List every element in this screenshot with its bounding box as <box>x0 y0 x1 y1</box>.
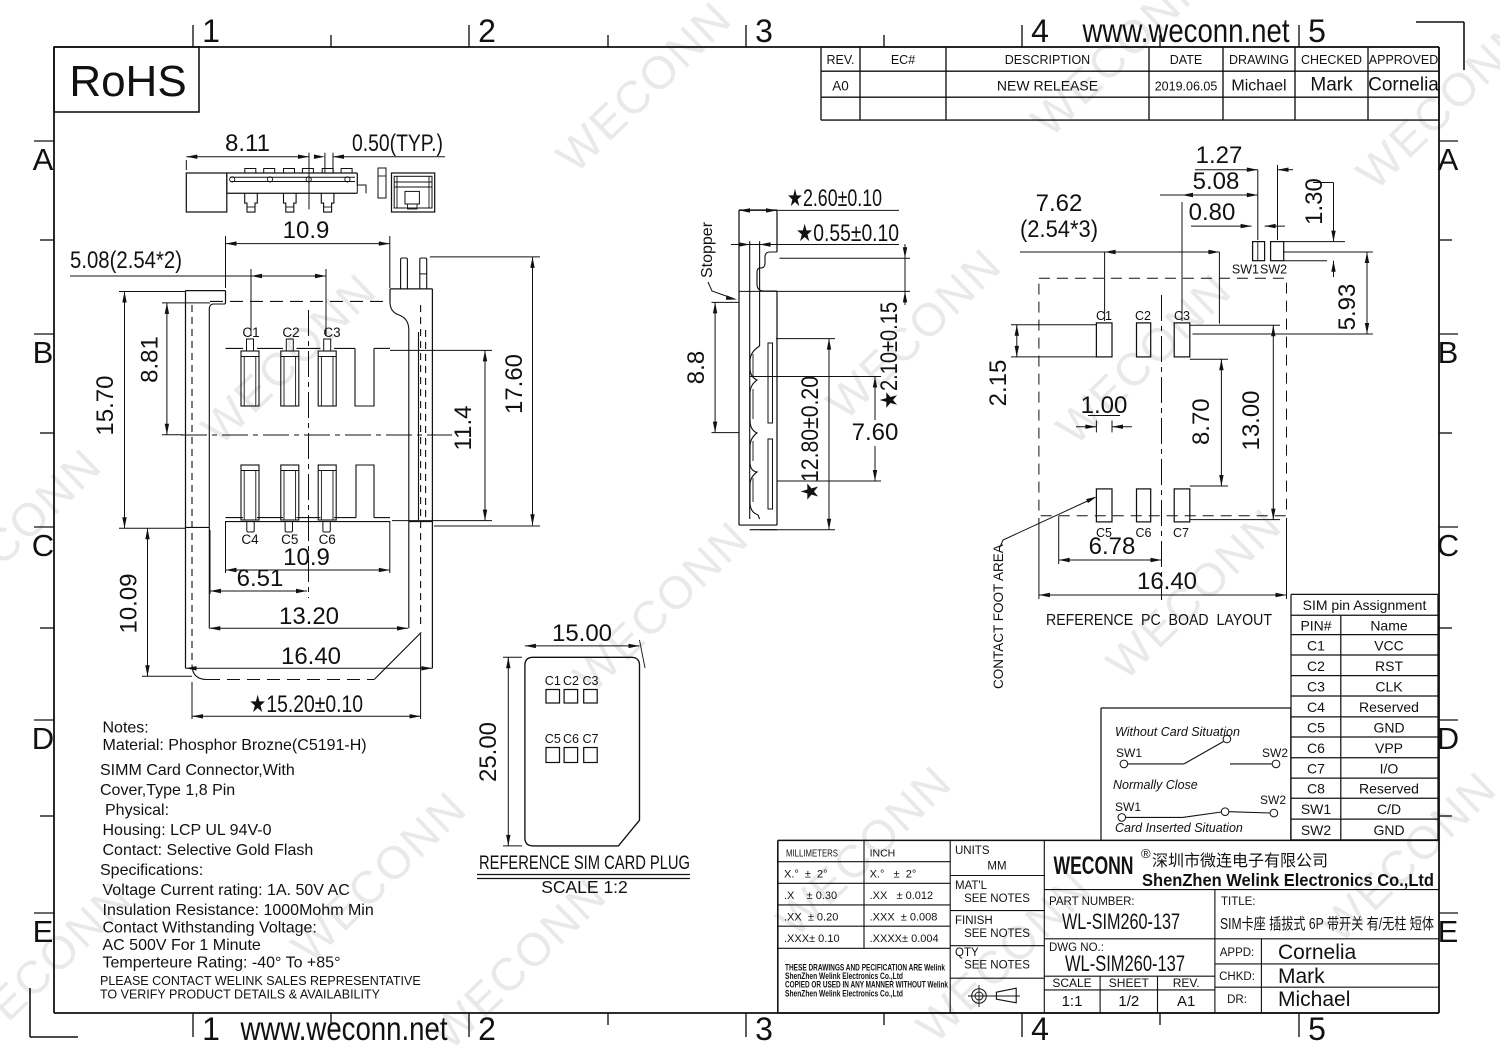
svg-text:SCALE 1:2: SCALE 1:2 <box>541 877 628 897</box>
svg-text:10.9: 10.9 <box>283 544 330 571</box>
svg-text:WL-SIM260-137: WL-SIM260-137 <box>1062 909 1180 934</box>
svg-text:Material: Phosphor Brozne(C519: Material: Phosphor Brozne(C5191-H) <box>103 737 367 754</box>
svg-text:SIM pin Assignment: SIM pin Assignment <box>1303 597 1427 613</box>
SIM pin assignment table <box>1291 594 1438 840</box>
svg-text:8.11: 8.11 <box>225 130 270 157</box>
dimension 16.40 (PCB) <box>1039 518 1287 599</box>
dimension 16.40 (front) <box>186 643 433 671</box>
svg-text:VCC: VCC <box>1374 637 1404 653</box>
svg-text:.XX ± 0.20: .XX ± 0.20 <box>784 912 838 924</box>
svg-text:16.40: 16.40 <box>281 643 341 670</box>
svg-text:6.51: 6.51 <box>237 565 284 592</box>
svg-text:Insulation Resistance: 1000Moh: Insulation Resistance: 1000Mohm Min <box>103 902 374 919</box>
top view right end block <box>392 173 435 212</box>
svg-text:17.60: 17.60 <box>501 354 528 414</box>
svg-text:FINISH: FINISH <box>955 915 993 927</box>
svg-text:25.00: 25.00 <box>475 722 502 782</box>
svg-text:C3: C3 <box>1307 678 1325 694</box>
svg-text:Mark: Mark <box>1278 965 1325 988</box>
dimension 6.51 <box>210 530 307 594</box>
svg-text:15.00: 15.00 <box>552 620 612 647</box>
svg-text:7.62: 7.62 <box>1036 190 1083 217</box>
part number cell <box>1044 890 1439 939</box>
svg-text:EC#: EC# <box>891 53 915 67</box>
switch diagram: without card situation <box>1115 725 1288 768</box>
svg-text:3: 3 <box>755 1011 773 1047</box>
top view solder pins <box>245 193 334 212</box>
title block outline <box>778 840 1439 1013</box>
contact C1 <box>241 325 260 406</box>
svg-text:CHECKED: CHECKED <box>1301 53 1362 67</box>
front view right rail (cover side wall) <box>390 289 432 668</box>
svg-text:8.70: 8.70 <box>1188 398 1215 445</box>
svg-text:REV.: REV. <box>826 53 854 67</box>
svg-text:SHEET: SHEET <box>1109 976 1150 990</box>
svg-text:X.° ± 2°: X.° ± 2° <box>784 869 828 881</box>
svg-text:SEE NOTES: SEE NOTES <box>964 960 1030 972</box>
svg-text:C6: C6 <box>563 732 579 746</box>
svg-text:REFERENCE SIM CARD PLUG: REFERENCE SIM CARD PLUG <box>479 853 690 874</box>
svg-text:7.60: 7.60 <box>852 419 899 446</box>
svg-text:PLEASE CONTACT WELINK SALES RE: PLEASE CONTACT WELINK SALES REPRESENTATI… <box>100 974 421 988</box>
front view upper shelf <box>226 348 391 406</box>
svg-text:C2: C2 <box>563 674 579 688</box>
zone row ticks and labels (left edge) <box>32 141 54 949</box>
svg-text:A: A <box>33 142 54 177</box>
svg-text:C2: C2 <box>282 325 299 340</box>
contact C3 <box>318 325 340 406</box>
dimension 8.81 <box>137 303 211 435</box>
units / matl / finish / qty column <box>950 840 1044 1013</box>
svg-text:C/D: C/D <box>1377 801 1401 817</box>
switch situation box <box>1101 708 1291 840</box>
top view step detail <box>357 168 386 198</box>
svg-text:2.15: 2.15 <box>985 360 1012 407</box>
website url top <box>1082 12 1290 49</box>
dimension 10.9 (front bottom) <box>226 521 390 573</box>
label REFERENCE PC BOAD LAYOUT <box>1046 612 1272 629</box>
contact C5 <box>281 465 299 547</box>
PCB pad C7 <box>1173 489 1190 540</box>
svg-text:NEW RELEASE: NEW RELEASE <box>997 78 1098 94</box>
svg-text:MILLIMETERS: MILLIMETERS <box>786 848 838 860</box>
dimension 2.60±0.10 (side) <box>739 185 899 213</box>
svg-text:C4: C4 <box>1307 699 1325 715</box>
svg-text:2019.06.05: 2019.06.05 <box>1155 80 1218 94</box>
svg-text:A0: A0 <box>832 79 849 94</box>
svg-text:1: 1 <box>202 1011 220 1047</box>
dimension 1.30 (PCB) <box>1284 178 1345 277</box>
dimension 15.70 <box>92 292 186 529</box>
svg-text:C6: C6 <box>1307 740 1325 756</box>
svg-text:Michael: Michael <box>1231 78 1286 95</box>
svg-text:E: E <box>33 914 54 949</box>
svg-text:DRAWING: DRAWING <box>1229 53 1289 67</box>
notes text block <box>100 720 421 1002</box>
title cell <box>1220 896 1434 933</box>
svg-text:CONTACT FOOT AREA: CONTACT FOOT AREA <box>991 544 1006 689</box>
PC board layout dashed outline <box>1039 278 1287 516</box>
dimension 15.00 (card) <box>525 620 645 668</box>
svg-text:★2.60±0.10: ★2.60±0.10 <box>787 185 882 212</box>
dwg no cell <box>1044 939 1215 1013</box>
svg-text:1.00: 1.00 <box>1081 392 1128 419</box>
svg-text:1:1: 1:1 <box>1062 993 1083 1010</box>
dimension 0.80 (PCB) <box>1189 199 1285 228</box>
svg-text:13.20: 13.20 <box>279 603 339 630</box>
svg-text:REV.: REV. <box>1173 976 1200 990</box>
svg-text:3: 3 <box>755 13 773 49</box>
dimension 11.4 <box>390 350 492 520</box>
side view stopper hook <box>757 252 777 291</box>
svg-text:WECONN: WECONN <box>1054 852 1134 880</box>
svg-text:C7: C7 <box>1307 760 1325 776</box>
svg-text:Reserved: Reserved <box>1359 781 1419 797</box>
svg-text:6.78: 6.78 <box>1089 533 1136 560</box>
tolerance table (millimeters / inch) <box>778 840 950 1013</box>
svg-text:11.4: 11.4 <box>450 406 477 451</box>
svg-text:D: D <box>32 721 54 756</box>
zone column ticks and labels (bottom edge) <box>193 1011 1326 1047</box>
svg-text:10.9: 10.9 <box>283 217 330 244</box>
svg-text:SW1: SW1 <box>1232 263 1259 277</box>
svg-text:2: 2 <box>478 1011 496 1047</box>
svg-text:TITLE:: TITLE: <box>1221 896 1256 908</box>
PCB pad SW2 <box>1260 242 1287 277</box>
svg-text:2: 2 <box>478 13 496 49</box>
svg-text:Stopper: Stopper <box>699 221 716 278</box>
contact C2 <box>281 325 300 406</box>
svg-text:GND: GND <box>1373 822 1404 838</box>
svg-text:C7: C7 <box>583 732 599 746</box>
svg-text:D: D <box>1437 721 1459 756</box>
svg-text:16.40: 16.40 <box>1137 568 1197 595</box>
svg-text:®: ® <box>1141 846 1151 861</box>
svg-text:SIM卡座 插拔式 6P 带开关 有/无柱 短体: SIM卡座 插拔式 6P 带开关 有/无柱 短体 <box>1220 915 1434 933</box>
svg-text:1/2: 1/2 <box>1118 993 1139 1010</box>
PCB pad C2 <box>1135 309 1151 357</box>
svg-text:SW2: SW2 <box>1260 793 1286 807</box>
svg-text:★12.80±0.20: ★12.80±0.20 <box>797 376 824 501</box>
label Normally Close <box>1113 778 1198 792</box>
svg-text:Cornelia: Cornelia <box>1368 75 1439 96</box>
svg-text:Without Card Situation: Without Card Situation <box>1115 725 1240 739</box>
dimension 25.00 (card) <box>475 657 522 846</box>
dimension 7.62 (2.54*3) <box>1020 190 1219 324</box>
svg-text:.XX ± 0.012: .XX ± 0.012 <box>870 890 934 902</box>
dimension 13.00 (PCB) <box>1190 325 1280 519</box>
dimension 10.09 <box>116 528 193 676</box>
svg-text:5.93: 5.93 <box>1334 284 1361 331</box>
svg-text:MAT'L: MAT'L <box>955 880 988 892</box>
dimension 5.93 (PCB) <box>1192 252 1373 334</box>
svg-text:SW2: SW2 <box>1301 822 1332 838</box>
front view left rail (cover side wall) <box>186 291 226 669</box>
svg-text:X.° ± 2°: X.° ± 2° <box>870 869 917 881</box>
svg-text:Mark: Mark <box>1310 75 1353 96</box>
top view left end block <box>186 173 227 212</box>
svg-text:C8: C8 <box>1307 781 1325 797</box>
front view lower shelf <box>226 465 391 518</box>
switch diagram: card inserted situation <box>1115 793 1286 835</box>
svg-text:Temperteure Rating: -40° To +8: Temperteure Rating: -40° To +85° <box>103 955 341 972</box>
svg-text:C5: C5 <box>1307 719 1325 735</box>
svg-text:C1: C1 <box>1307 637 1325 653</box>
svg-text:C4: C4 <box>241 532 259 547</box>
svg-text:DATE: DATE <box>1170 53 1202 67</box>
svg-text:深圳市微连电子有限公司: 深圳市微连电子有限公司 <box>1152 852 1328 870</box>
svg-text:SW1: SW1 <box>1116 746 1142 760</box>
svg-text:10.09: 10.09 <box>116 573 143 633</box>
svg-text:APPROVED: APPROVED <box>1369 53 1438 67</box>
dimension 7.60 (side) <box>750 377 899 482</box>
dimension 0.50(TYP.) (top view) <box>314 130 445 173</box>
front view vertical center line <box>308 310 310 598</box>
svg-text:TO VERIFY PRODUCT DETAILS & AV: TO VERIFY PRODUCT DETAILS & AVAILABILITY <box>100 988 381 1002</box>
svg-text:15.70: 15.70 <box>92 376 119 436</box>
svg-text:(2.54*3): (2.54*3) <box>1020 216 1098 243</box>
svg-text:4: 4 <box>1031 13 1049 49</box>
revision history table <box>821 47 1439 120</box>
dimension 10.9 (front top) <box>226 217 390 288</box>
svg-text:CHKD:: CHKD: <box>1219 971 1255 983</box>
dimension 1.27 (PCB) <box>1195 142 1293 240</box>
dimension 8.70 (PCB) <box>1188 359 1228 486</box>
svg-text:Physical:: Physical: <box>105 802 169 819</box>
svg-text:Card Inserted Situation: Card Inserted Situation <box>1115 821 1243 835</box>
svg-text:5: 5 <box>1308 13 1326 49</box>
svg-text:Michael: Michael <box>1278 988 1350 1011</box>
svg-text:13.00: 13.00 <box>1238 390 1265 450</box>
svg-text:UNITS: UNITS <box>955 845 990 857</box>
svg-text:Normally Close: Normally Close <box>1113 778 1198 792</box>
svg-text:RoHS: RoHS <box>69 57 186 106</box>
svg-text:ShenZhen Welink Electronics Co: ShenZhen Welink Electronics Co.,Ltd <box>1142 870 1434 890</box>
svg-text:GND: GND <box>1373 719 1404 735</box>
svg-text:B: B <box>1438 335 1459 370</box>
svg-text:.XXXX± 0.004: .XXXX± 0.004 <box>870 933 939 945</box>
svg-text:★0.55±0.10: ★0.55±0.10 <box>796 220 899 247</box>
svg-text:Specifications:: Specifications: <box>100 862 203 879</box>
svg-text:PART NUMBER:: PART NUMBER: <box>1049 896 1135 908</box>
svg-text:C2: C2 <box>1307 658 1325 674</box>
svg-text:SCALE: SCALE <box>1052 976 1091 990</box>
svg-text:PIN#: PIN# <box>1300 617 1331 633</box>
PCB vertical center line <box>1161 295 1163 600</box>
svg-text:0.80: 0.80 <box>1189 199 1236 226</box>
front view cover top pins <box>401 258 427 289</box>
third angle projection symbol <box>968 985 1020 1007</box>
svg-text:SEE NOTES: SEE NOTES <box>964 928 1030 940</box>
svg-text:Notes:: Notes: <box>103 720 149 737</box>
dimension 12.80±0.20 (side) <box>760 339 835 530</box>
svg-text:Housing: LCP UL 94V-0: Housing: LCP UL 94V-0 <box>103 822 272 839</box>
svg-text:A: A <box>1438 142 1459 177</box>
dimension 17.60 <box>430 257 540 526</box>
dimension 8.8 (side) <box>683 302 739 432</box>
svg-text:Cover,Type 1,8 Pin: Cover,Type 1,8 Pin <box>100 782 235 799</box>
svg-text:SW2: SW2 <box>1262 746 1288 760</box>
svg-text:C1: C1 <box>1096 309 1112 323</box>
svg-text:5.08(2.54*2): 5.08(2.54*2) <box>70 247 182 274</box>
website url bottom <box>240 1010 448 1047</box>
label REFERENCE SIM CARD PLUG <box>477 853 690 897</box>
svg-text:WL-SIM260-137: WL-SIM260-137 <box>1065 951 1185 976</box>
svg-text:SW2: SW2 <box>1260 263 1287 277</box>
disclaimer text <box>785 963 948 999</box>
svg-text:5.08: 5.08 <box>1193 168 1240 195</box>
PCB pad C5 <box>1096 489 1112 540</box>
svg-text:B: B <box>33 335 54 370</box>
reference SIM card plug outline <box>525 657 640 846</box>
svg-text:AC 500V For 1 Minute: AC 500V For 1 Minute <box>103 937 261 954</box>
company logo WECONN <box>1044 846 1439 890</box>
svg-text:SIMM Card Connector,With: SIMM Card Connector,With <box>100 762 295 779</box>
dimension 5.08 (PCB) <box>1160 168 1258 321</box>
svg-text:A1: A1 <box>1177 993 1195 1010</box>
svg-text:C: C <box>1437 528 1459 563</box>
svg-text:0.50(TYP.): 0.50(TYP.) <box>352 130 443 157</box>
svg-text:INCH: INCH <box>870 848 896 860</box>
svg-text:Voltage Current rating: 1A. 50: Voltage Current rating: 1A. 50V AC <box>103 882 350 899</box>
front view bottom edge and feet <box>226 522 391 532</box>
svg-text:SEE NOTES: SEE NOTES <box>964 893 1030 905</box>
svg-text:1.30: 1.30 <box>1301 178 1328 225</box>
contact C6 <box>318 465 336 547</box>
svg-text:www.weconn.net: www.weconn.net <box>1082 12 1290 49</box>
svg-text:C6: C6 <box>1136 526 1152 540</box>
svg-text:www.weconn.net: www.weconn.net <box>240 1010 448 1047</box>
dimension 5.08(2.54*2) <box>70 247 326 336</box>
svg-text:.XXX± 0.10: .XXX± 0.10 <box>784 933 840 945</box>
svg-text:RST: RST <box>1375 658 1403 674</box>
svg-text:5: 5 <box>1308 1011 1326 1047</box>
top view body strip <box>227 169 357 194</box>
PCB pad C6 <box>1136 489 1152 540</box>
svg-text:C3: C3 <box>583 674 599 688</box>
corner crop mark top-right <box>1416 22 1464 70</box>
dimension 8.11 (top view) <box>186 130 309 209</box>
svg-text:DR:: DR: <box>1227 994 1247 1006</box>
svg-text:C2: C2 <box>1135 309 1151 323</box>
svg-text:★15.20±0.10: ★15.20±0.10 <box>249 691 363 718</box>
svg-text:Cornelia: Cornelia <box>1278 941 1357 964</box>
svg-text:E: E <box>1438 914 1459 949</box>
front view card bottom outline <box>192 632 421 679</box>
svg-text:DESCRIPTION: DESCRIPTION <box>1005 53 1090 67</box>
dimension 0.55±0.10 (side) <box>731 220 899 247</box>
svg-text:1: 1 <box>202 13 220 49</box>
svg-text:Name: Name <box>1370 617 1408 633</box>
svg-text:C: C <box>32 528 54 563</box>
svg-text:SW1: SW1 <box>1115 800 1141 814</box>
svg-text:.X ± 0.30: .X ± 0.30 <box>784 890 837 902</box>
corner crop mark bottom-left <box>30 988 78 1037</box>
svg-text:C7: C7 <box>1173 526 1189 540</box>
dimension 13.20 <box>209 603 408 631</box>
dimension 2.10±0.15 (side) <box>739 244 910 409</box>
svg-text:SW1: SW1 <box>1301 801 1332 817</box>
svg-text:8.8: 8.8 <box>683 351 710 384</box>
PCB pad C1 <box>1096 309 1112 357</box>
svg-text:CLK: CLK <box>1375 678 1403 694</box>
svg-text:MM: MM <box>987 861 1006 873</box>
svg-text:QTY: QTY <box>955 947 979 959</box>
svg-text:4: 4 <box>1031 1011 1049 1047</box>
dimension 6.78 (PCB) <box>1059 516 1162 564</box>
svg-text:C5: C5 <box>545 732 561 746</box>
svg-text:REFERENCE PC BOAD LAYOUT: REFERENCE PC BOAD LAYOUT <box>1046 612 1272 629</box>
svg-text:8.81: 8.81 <box>137 336 164 383</box>
scale sheet rev row <box>1044 976 1215 1013</box>
svg-text:Contact: Selective Gold Flash: Contact: Selective Gold Flash <box>103 842 314 859</box>
svg-text:1.27: 1.27 <box>1196 142 1243 169</box>
PCB pad C3 <box>1174 309 1190 357</box>
label CONTACT FOOT AREA with leader <box>991 497 1097 690</box>
SIM plug pads row C5 C6 C7 <box>545 732 599 763</box>
contact C4 <box>241 465 259 547</box>
svg-text:Contact Withstanding Voltage:: Contact Withstanding Voltage: <box>103 920 317 937</box>
side view cover plate <box>739 210 777 530</box>
dimension 1.00 (PCB) <box>1076 392 1132 432</box>
PCB pad SW1 <box>1232 242 1265 277</box>
svg-text:APPD:: APPD: <box>1220 947 1255 959</box>
dimension 2.15 (PCB) <box>985 325 1096 407</box>
svg-text:★2.10±0.15: ★2.10±0.15 <box>876 302 903 409</box>
svg-text:Reserved: Reserved <box>1359 699 1419 715</box>
dimension 15.20±0.10 <box>192 634 421 719</box>
side view contact strips <box>768 343 773 509</box>
svg-text:.XXX ± 0.008: .XXX ± 0.008 <box>870 912 938 924</box>
side view contact springs <box>750 346 760 519</box>
front view card top edge (dashed) <box>210 300 388 302</box>
zone row ticks and labels (right edge) <box>1437 141 1459 949</box>
svg-text:VPP: VPP <box>1375 740 1403 756</box>
zone column ticks and labels (top edge) <box>193 13 1326 49</box>
svg-text:C1: C1 <box>545 674 561 688</box>
Stopper label and leader <box>699 221 737 299</box>
svg-text:I/O: I/O <box>1380 760 1399 776</box>
RoHS logo box <box>54 47 199 112</box>
approvals appd chkd dr <box>1215 939 1439 1013</box>
front view horizontal center line <box>181 434 452 436</box>
svg-text:ShenZhen Welink Electronics Co: ShenZhen Welink Electronics Co.,Ltd <box>785 988 903 998</box>
SIM plug pads row C1 C2 C3 <box>545 674 599 703</box>
